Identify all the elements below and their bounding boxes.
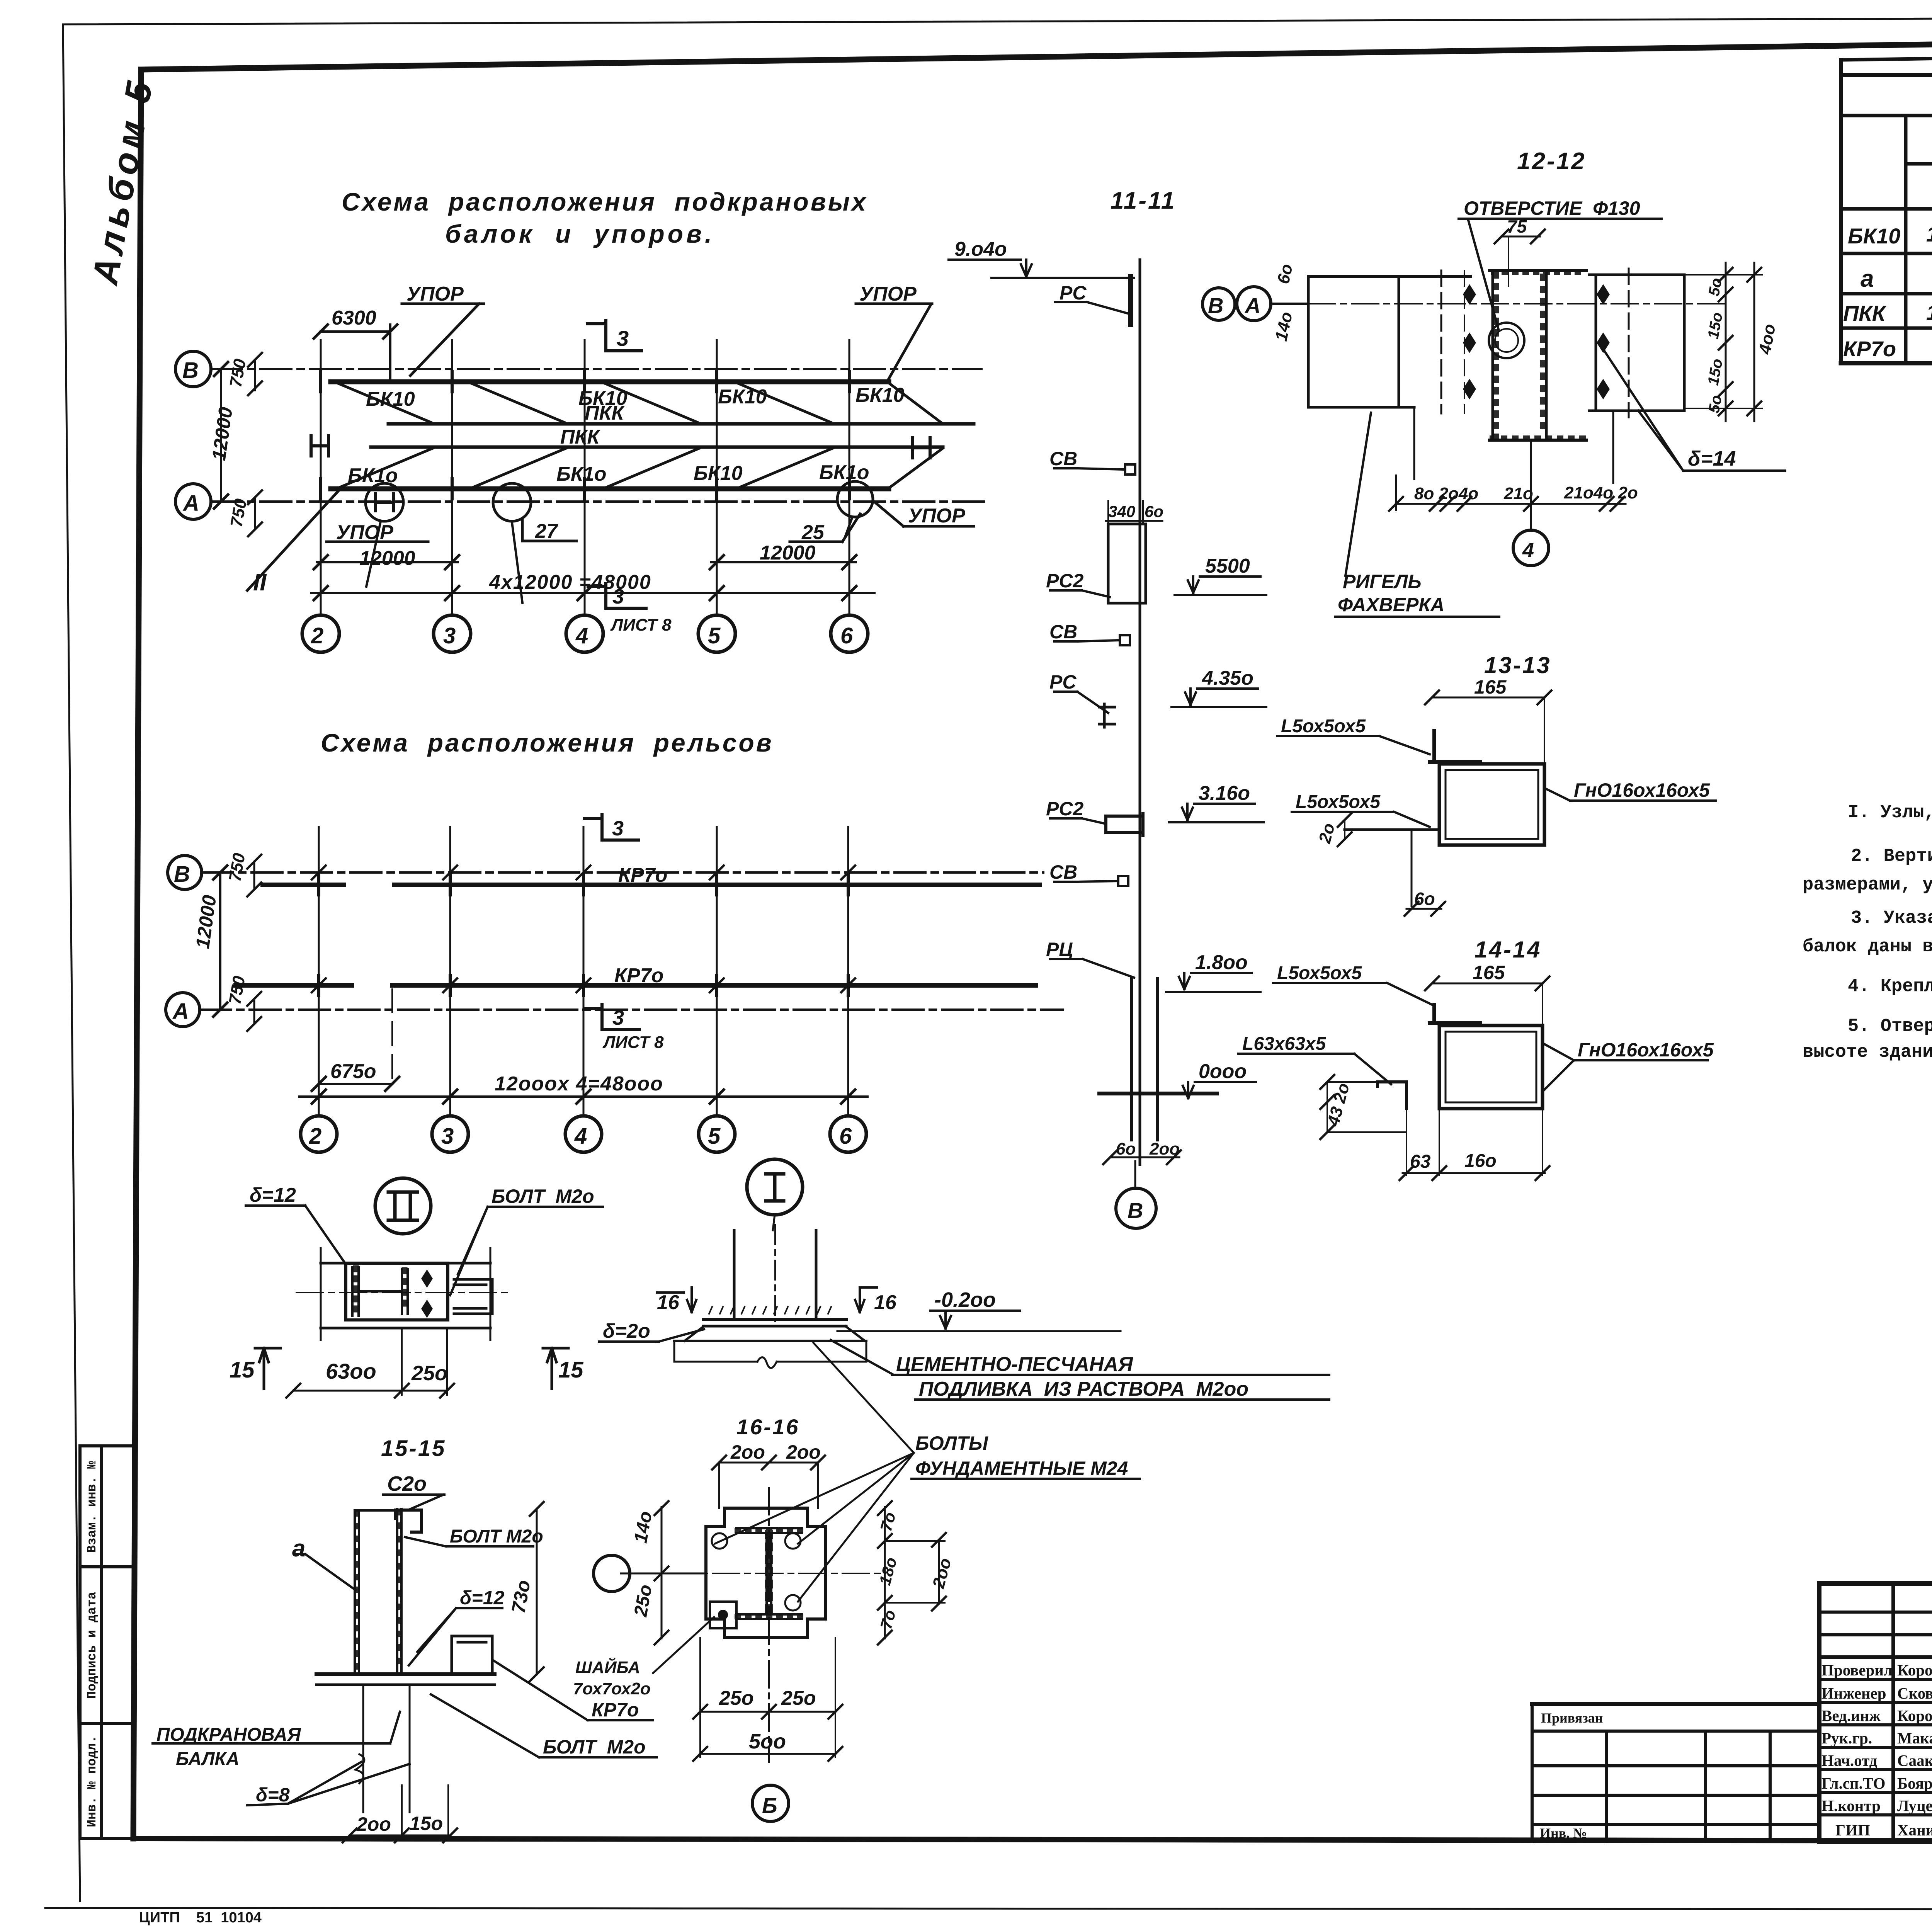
- svg-text:Проверил: Проверил: [1821, 1661, 1893, 1679]
- svg-text:В: В: [174, 862, 190, 887]
- svg-text:ПОДКРАНОВАЯ: ПОДКРАНОВАЯ: [156, 1725, 301, 1745]
- svg-text:0ооо: 0ооо: [1199, 1060, 1247, 1083]
- svg-text:Луценко: Луценко: [1897, 1797, 1932, 1815]
- svg-text:БК10: БК10: [718, 386, 767, 408]
- svg-text:6: 6: [840, 623, 853, 648]
- svg-text:5о: 5о: [1705, 277, 1725, 298]
- svg-text:340: 340: [1108, 502, 1135, 520]
- svg-text:25о: 25о: [411, 1362, 447, 1385]
- svg-text:25: 25: [801, 521, 825, 544]
- svg-text:12000: 12000: [359, 547, 415, 570]
- svg-text:3: 3: [443, 623, 456, 648]
- svg-text:2: 2: [309, 1124, 321, 1149]
- svg-text:2оо: 2оо: [786, 1441, 821, 1463]
- svg-text:С2о: С2о: [387, 1472, 427, 1495]
- svg-text:А: А: [172, 999, 189, 1024]
- svg-text:16: 16: [874, 1291, 897, 1314]
- svg-text:5. Отверстие ØI30мм вырезать п: 5. Отверстие ØI30мм вырезать по месту до…: [1848, 1016, 1932, 1037]
- svg-text:21о: 21о: [1503, 484, 1533, 503]
- svg-text:14о: 14о: [630, 1510, 656, 1545]
- svg-text:БОЛТЫ: БОЛТЫ: [915, 1432, 988, 1454]
- svg-text:L5ох5ох5: L5ох5ох5: [1296, 792, 1381, 812]
- svg-text:δ=12: δ=12: [250, 1184, 296, 1206]
- svg-text:А: А: [1244, 293, 1260, 318]
- svg-text:15о: 15о: [1705, 311, 1726, 340]
- svg-text:Подпись и дата: Подпись и дата: [85, 1592, 99, 1699]
- svg-text:63: 63: [1410, 1151, 1431, 1172]
- svg-text:6: 6: [839, 1124, 852, 1149]
- svg-text:ЦИТП 51 10104: ЦИТП 51 10104: [139, 1910, 262, 1926]
- svg-text:КР7о: КР7о: [614, 964, 663, 987]
- svg-text:165: 165: [1473, 962, 1505, 983]
- svg-text:Боярченко: Боярченко: [1897, 1774, 1932, 1792]
- svg-text:750: 750: [225, 852, 249, 883]
- svg-text:2оо: 2оо: [730, 1441, 765, 1463]
- svg-text:КР7о: КР7о: [592, 1699, 639, 1721]
- svg-text:РС2: РС2: [1046, 570, 1083, 592]
- svg-text:РС2: РС2: [1046, 798, 1083, 820]
- svg-text:а: а: [1861, 265, 1874, 292]
- svg-text:РЦ: РЦ: [1046, 939, 1073, 960]
- svg-text:Схема расположения рельсов: Схема расположения рельсов: [321, 728, 774, 757]
- svg-text:12000: 12000: [192, 894, 221, 950]
- svg-text:2оо: 2оо: [929, 1556, 955, 1590]
- svg-text:КР7о: КР7о: [1843, 337, 1896, 361]
- svg-text:5о: 5о: [1705, 394, 1725, 415]
- svg-text:СВ: СВ: [1049, 621, 1077, 643]
- svg-text:21о4о 2о: 21о4о 2о: [1564, 483, 1638, 502]
- svg-text:13-13: 13-13: [1484, 652, 1551, 678]
- svg-text:16: 16: [657, 1291, 680, 1314]
- svg-text:δ=2о: δ=2о: [603, 1320, 650, 1342]
- svg-text:2оо: 2оо: [1149, 1139, 1180, 1158]
- svg-text:ГнО16ох16ох5: ГнО16ох16ох5: [1578, 1039, 1714, 1061]
- svg-text:14о: 14о: [1272, 310, 1296, 343]
- svg-text:В: В: [1128, 1198, 1143, 1223]
- svg-text:ФУНДАМЕНТНЫЕ М24: ФУНДАМЕНТНЫЕ М24: [915, 1458, 1128, 1479]
- svg-text:5: 5: [708, 623, 721, 648]
- svg-text:БК10: БК10: [694, 462, 743, 485]
- svg-text:УПОР: УПОР: [908, 505, 965, 527]
- svg-text:Альбом 5: Альбом 5: [84, 74, 161, 288]
- svg-text:ГнО16ох16ох5: ГнО16ох16ох5: [1574, 779, 1710, 801]
- svg-text:L63х63х5: L63х63х5: [1242, 1034, 1326, 1054]
- svg-text:В: В: [182, 358, 199, 383]
- svg-text:БАЛКА: БАЛКА: [176, 1749, 240, 1769]
- svg-text:L5ох5ох5: L5ох5ох5: [1277, 963, 1362, 983]
- svg-text:Сковпень: Сковпень: [1897, 1684, 1932, 1702]
- svg-text:6о: 6о: [1116, 1139, 1136, 1158]
- svg-text:δ=14: δ=14: [1688, 447, 1736, 470]
- svg-text:63оо: 63оо: [326, 1359, 376, 1383]
- svg-text:4.35о: 4.35о: [1202, 667, 1253, 689]
- svg-text:750: 750: [225, 975, 249, 1006]
- svg-text:А: А: [182, 491, 199, 516]
- svg-text:БК1о: БК1о: [348, 464, 398, 487]
- svg-text:Вед.инж: Вед.инж: [1821, 1707, 1881, 1725]
- svg-text:5500: 5500: [1205, 555, 1250, 577]
- svg-text:Инв. №: Инв. №: [1540, 1825, 1587, 1841]
- svg-text:Нач.отд: Нач.отд: [1821, 1752, 1878, 1769]
- svg-text:ФАХВЕРКА: ФАХВЕРКА: [1338, 594, 1444, 616]
- svg-text:7ох7ох2о: 7ох7ох2о: [573, 1679, 651, 1698]
- svg-text:6о: 6о: [1145, 502, 1163, 520]
- svg-text:11-11: 11-11: [1111, 187, 1176, 214]
- svg-text:I. Узлы, замаркированные на ли: I. Узлы, замаркированные на листах 8,9 в…: [1848, 803, 1932, 823]
- svg-text:высоте здания.: высоте здания.: [1803, 1042, 1932, 1063]
- svg-text:балок даны в серии II-2537КМ.: балок даны в серии II-2537КМ.: [1803, 937, 1932, 957]
- svg-text:6о: 6о: [1274, 262, 1297, 286]
- svg-text:4: 4: [575, 623, 588, 648]
- svg-text:2. Вертикальная связь СК-8а от: 2. Вертикальная связь СК-8а отличается о…: [1851, 846, 1932, 867]
- svg-text:11-2537КМ, ПКК: 11-2537КМ, ПКК: [1926, 300, 1932, 325]
- svg-text:СВ: СВ: [1049, 861, 1077, 883]
- svg-text:БК10: БК10: [855, 384, 905, 406]
- svg-text:Инв. № подл.: Инв. № подл.: [85, 1735, 99, 1827]
- svg-text:Б: Б: [762, 1793, 777, 1818]
- svg-text:25о: 25о: [630, 1583, 656, 1619]
- svg-text:Макарова: Макарова: [1897, 1729, 1932, 1747]
- svg-text:БК1о: БК1о: [556, 463, 606, 485]
- svg-text:УПОР: УПОР: [406, 283, 464, 305]
- svg-text:Привязан: Привязан: [1541, 1710, 1603, 1726]
- svg-text:3.16о: 3.16о: [1199, 782, 1250, 804]
- svg-text:12оооx 4=48ооо: 12оооx 4=48ооо: [495, 1073, 663, 1095]
- svg-text:12-12: 12-12: [1517, 148, 1586, 175]
- svg-text:14-14: 14-14: [1475, 937, 1541, 963]
- svg-text:Рук.гр.: Рук.гр.: [1821, 1729, 1872, 1747]
- svg-text:балок и упоров.: балок и упоров.: [445, 219, 715, 248]
- svg-text:БК1о: БК1о: [819, 461, 869, 484]
- svg-text:43 2о: 43 2о: [1324, 1081, 1354, 1128]
- svg-text:ПОДЛИВКА ИЗ РАСТВОРА М2оо: ПОДЛИВКА ИЗ РАСТВОРА М2оо: [919, 1378, 1248, 1400]
- svg-text:2: 2: [311, 623, 323, 648]
- svg-text:25о: 25о: [781, 1687, 816, 1709]
- svg-text:БОЛТ М2о: БОЛТ М2о: [543, 1736, 646, 1758]
- svg-text:Н.контр: Н.контр: [1821, 1797, 1881, 1815]
- svg-text:15о: 15о: [410, 1813, 443, 1834]
- svg-text:16-16: 16-16: [736, 1415, 799, 1439]
- svg-text:3: 3: [612, 1006, 624, 1029]
- svg-text:Коротенко: Коротенко: [1897, 1707, 1932, 1725]
- svg-text:4оо: 4оо: [1755, 323, 1779, 356]
- svg-text:15-15: 15-15: [381, 1436, 446, 1461]
- svg-text:Коротенко: Коротенко: [1897, 1661, 1932, 1679]
- svg-text:РС: РС: [1049, 671, 1077, 693]
- svg-text:75: 75: [1507, 216, 1527, 236]
- svg-text:ПКК: ПКК: [1843, 301, 1887, 325]
- svg-text:размерами, указанными на черте: размерами, указанными на чертеже.: [1803, 875, 1932, 895]
- svg-text:ПКК: ПКК: [585, 402, 625, 424]
- svg-text:8о 2о4о: 8о 2о4о: [1414, 484, 1478, 503]
- svg-text:27: 27: [535, 520, 558, 543]
- svg-text:РИГЕЛЬ: РИГЕЛЬ: [1343, 571, 1422, 592]
- svg-text:ШАЙБА: ШАЙБА: [575, 1657, 640, 1677]
- svg-text:УПОР: УПОР: [859, 283, 917, 305]
- svg-text:ПКК: ПКК: [560, 426, 600, 448]
- svg-text:II: II: [253, 569, 267, 596]
- svg-text:11-2537 КМ , БК10: 11-2537 КМ , БК10: [1926, 222, 1932, 246]
- svg-text:БОЛТ М2о: БОЛТ М2о: [450, 1526, 543, 1547]
- svg-text:В: В: [1208, 293, 1223, 318]
- svg-text:Саакьянц: Саакьянц: [1897, 1752, 1932, 1769]
- svg-text:ЛИСТ 8: ЛИСТ 8: [610, 616, 672, 634]
- svg-text:6о: 6о: [1414, 889, 1435, 909]
- svg-text:Ханин: Ханин: [1897, 1821, 1932, 1839]
- svg-text:БОЛТ М2о: БОЛТ М2о: [492, 1185, 594, 1207]
- svg-text:6300: 6300: [332, 307, 376, 329]
- svg-text:165: 165: [1474, 676, 1507, 698]
- svg-text:16о: 16о: [1464, 1151, 1497, 1171]
- svg-text:ЦЕМЕНТНО-ПЕСЧАНАЯ: ЦЕМЕНТНО-ПЕСЧАНАЯ: [896, 1353, 1133, 1376]
- svg-text:18о: 18о: [876, 1555, 900, 1587]
- svg-text:СВ: СВ: [1049, 448, 1077, 469]
- svg-text:а: а: [292, 1535, 305, 1562]
- svg-text:КР7о: КР7о: [618, 864, 667, 886]
- svg-text:5: 5: [708, 1124, 721, 1149]
- svg-text:12000: 12000: [760, 542, 816, 564]
- svg-text:δ=12: δ=12: [460, 1587, 505, 1609]
- svg-text:25о: 25о: [719, 1687, 754, 1709]
- svg-text:L5ох5ох5: L5ох5ох5: [1281, 716, 1366, 736]
- svg-text:3: 3: [617, 326, 629, 350]
- svg-text:4. Крепление рельса Кр70 выпол: 4. Крепление рельса Кр70 выполнять по ГО…: [1848, 976, 1932, 997]
- svg-text:3: 3: [612, 817, 624, 840]
- svg-text:4: 4: [1522, 539, 1534, 562]
- svg-text:7о: 7о: [877, 1608, 899, 1631]
- svg-text:БК10: БК10: [1848, 224, 1900, 248]
- svg-text:2о: 2о: [1315, 821, 1338, 845]
- svg-text:2оо: 2оо: [356, 1813, 391, 1835]
- svg-text:ГИП: ГИП: [1835, 1821, 1870, 1839]
- svg-text:4х12000 =48000: 4х12000 =48000: [489, 571, 651, 594]
- svg-text:3. Указания по монтажу настила: 3. Указания по монтажу настила покрытия …: [1851, 908, 1932, 929]
- svg-text:4: 4: [574, 1124, 587, 1149]
- svg-text:ОТВЕРСТИЕ Ф130: ОТВЕРСТИЕ Ф130: [1464, 197, 1640, 219]
- svg-text:-0.2оо: -0.2оо: [934, 1288, 996, 1311]
- svg-text:675о: 675о: [330, 1060, 376, 1083]
- svg-text:73о: 73о: [507, 1578, 534, 1615]
- svg-text:УПОР: УПОР: [336, 521, 393, 544]
- svg-text:Взам. инв. №: Взам. инв. №: [85, 1461, 99, 1553]
- svg-text:5оо: 5оо: [749, 1730, 786, 1753]
- svg-text:ЛИСТ 8: ЛИСТ 8: [602, 1033, 664, 1052]
- svg-text:15: 15: [230, 1357, 255, 1383]
- svg-text:δ=8: δ=8: [256, 1784, 290, 1806]
- svg-text:9.о4о: 9.о4о: [954, 238, 1007, 260]
- svg-text:3: 3: [441, 1124, 454, 1149]
- svg-text:Схема расположения подкранов: Схема расположения подкрановых: [342, 187, 868, 216]
- svg-text:Инженер: Инженер: [1821, 1684, 1886, 1702]
- svg-text:12000: 12000: [208, 406, 237, 462]
- svg-text:15: 15: [558, 1357, 583, 1383]
- svg-text:РС: РС: [1060, 282, 1087, 304]
- svg-text:1.8оо: 1.8оо: [1195, 951, 1248, 974]
- svg-text:Гл.сп.ТО: Гл.сп.ТО: [1821, 1774, 1885, 1792]
- svg-text:15о: 15о: [1705, 357, 1726, 387]
- svg-text:БК10: БК10: [366, 388, 415, 410]
